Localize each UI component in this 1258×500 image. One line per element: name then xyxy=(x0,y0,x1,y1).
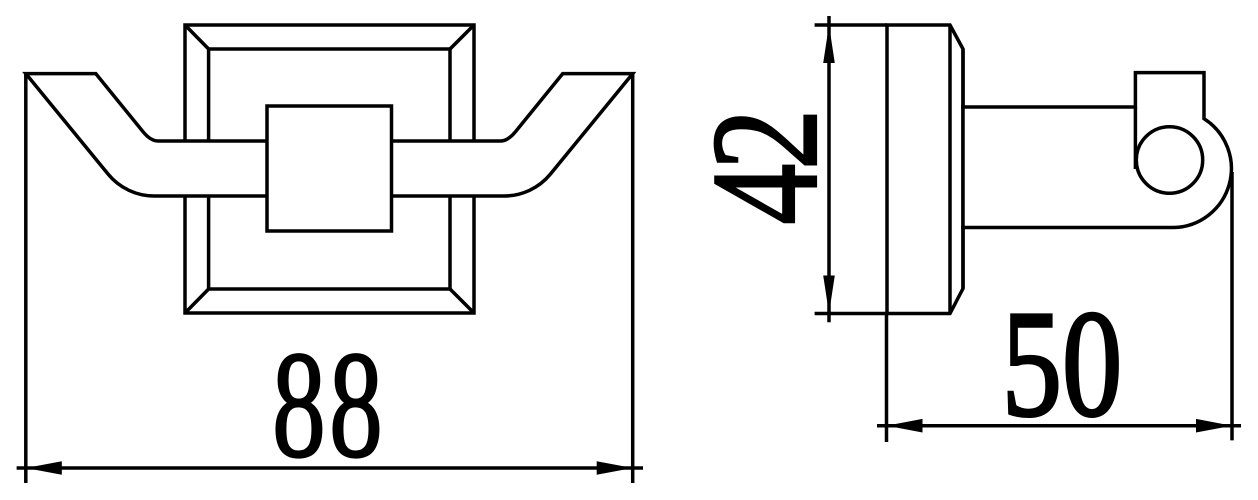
plate front face edge (over arm junction) xyxy=(961,49,965,289)
plate face crease line xyxy=(948,25,952,314)
hook tip left edge lower part xyxy=(1134,107,1138,169)
hook ball circle xyxy=(1136,127,1202,193)
arrowhead left of 50 xyxy=(887,419,923,433)
arrowhead bottom of 42 xyxy=(823,276,835,314)
arrowhead right of 88 xyxy=(597,461,633,475)
arrowhead right of 50 xyxy=(1196,419,1232,433)
svg-text:42: 42 xyxy=(680,115,849,225)
svg-text:50: 50 xyxy=(1002,278,1123,448)
bottom extension line 42 xyxy=(815,312,887,316)
dimension line 50 xyxy=(877,424,1241,428)
top extension line 42 xyxy=(815,23,887,27)
bevel corner line top-left xyxy=(185,25,209,49)
dimension line 88 xyxy=(17,466,643,470)
arrowhead left of 88 xyxy=(26,461,62,475)
wall plate outer square xyxy=(185,25,474,313)
bevel corner line bottom-left xyxy=(185,289,209,313)
arrowhead top of 42 xyxy=(823,25,835,63)
center hub square xyxy=(267,106,392,231)
right extension line 50 xyxy=(1230,172,1234,440)
double hook arm (front profile) xyxy=(26,74,633,196)
bevel corner line top-right xyxy=(450,25,474,49)
left extension line 50 xyxy=(885,314,889,443)
wall plate inner bevel square xyxy=(209,49,450,289)
svg-text:88: 88 xyxy=(272,319,386,489)
hook arm side profile xyxy=(963,73,1231,228)
bevel corner line bottom-right xyxy=(450,289,474,313)
left hook tip edge / extension line xyxy=(24,74,28,483)
wall plate side profile xyxy=(887,25,963,314)
dimension line 42 xyxy=(827,16,831,322)
right hook tip edge / extension line xyxy=(631,74,635,483)
